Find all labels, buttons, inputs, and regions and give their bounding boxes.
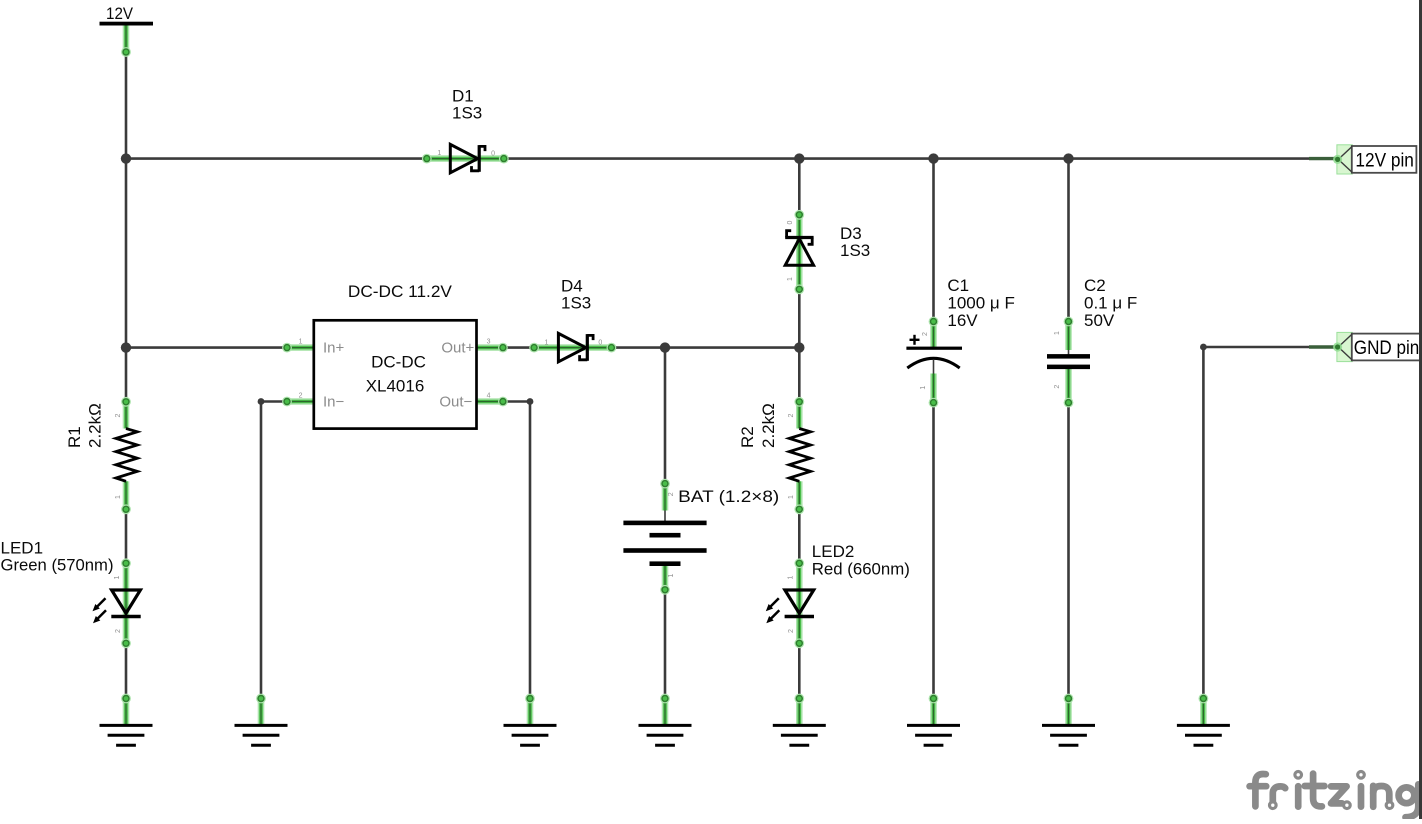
svg-text:1000 μ F: 1000 μ F [947,294,1014,313]
svg-text:2: 2 [788,629,795,633]
svg-text:1S3: 1S3 [840,241,870,260]
svg-text:BAT (1.2×8): BAT (1.2×8) [678,487,779,506]
svg-text:Red (660nm): Red (660nm) [812,560,910,579]
svg-text:1: 1 [1054,331,1061,335]
svg-text:DC-DC: DC-DC [371,353,426,372]
svg-text:2.2kΩ: 2.2kΩ [759,403,778,448]
svg-text:1: 1 [668,573,675,577]
svg-text:1: 1 [437,150,441,157]
svg-text:1: 1 [788,495,795,499]
svg-text:In+: In+ [323,339,345,356]
svg-text:3: 3 [487,339,491,346]
svg-text:0.1 μ F: 0.1 μ F [1084,294,1137,313]
svg-text:1: 1 [115,495,122,499]
svg-text:1: 1 [787,575,794,579]
svg-text:16V: 16V [947,311,978,330]
svg-text:Green (570nm): Green (570nm) [1,556,114,575]
svg-text:12V: 12V [106,4,134,23]
svg-text:C2: C2 [1084,276,1106,295]
svg-text:2: 2 [788,413,795,417]
svg-text:Out−: Out− [439,393,472,410]
svg-text:1: 1 [545,339,549,346]
svg-text:0: 0 [598,339,602,346]
svg-text:2: 2 [115,413,122,417]
svg-text:1: 1 [114,575,121,579]
svg-text:0: 0 [787,220,794,224]
svg-text:2: 2 [922,332,929,336]
svg-text:R1: R1 [65,426,84,448]
svg-text:DC-DC 11.2V: DC-DC 11.2V [348,282,453,301]
svg-text:4: 4 [487,393,491,400]
svg-text:In−: In− [323,393,345,410]
svg-text:1: 1 [787,277,794,281]
svg-text:2: 2 [1054,385,1061,389]
svg-text:R2: R2 [738,426,757,448]
svg-text:GND pin: GND pin [1354,338,1420,359]
svg-text:C1: C1 [947,276,969,295]
svg-text:Out+: Out+ [441,339,474,356]
svg-text:LED2: LED2 [812,542,855,561]
svg-text:2: 2 [299,393,303,400]
svg-text:0: 0 [491,150,495,157]
svg-text:2: 2 [115,629,122,633]
svg-text:1: 1 [920,386,927,390]
svg-text:1S3: 1S3 [561,294,591,313]
svg-text:XL4016: XL4016 [366,377,425,396]
svg-text:2: 2 [668,492,675,496]
svg-text:50V: 50V [1084,311,1115,330]
svg-text:1S3: 1S3 [452,104,482,123]
svg-text:12V pin: 12V pin [1355,150,1414,171]
svg-text:2.2kΩ: 2.2kΩ [86,403,105,448]
svg-text:1: 1 [299,339,303,346]
